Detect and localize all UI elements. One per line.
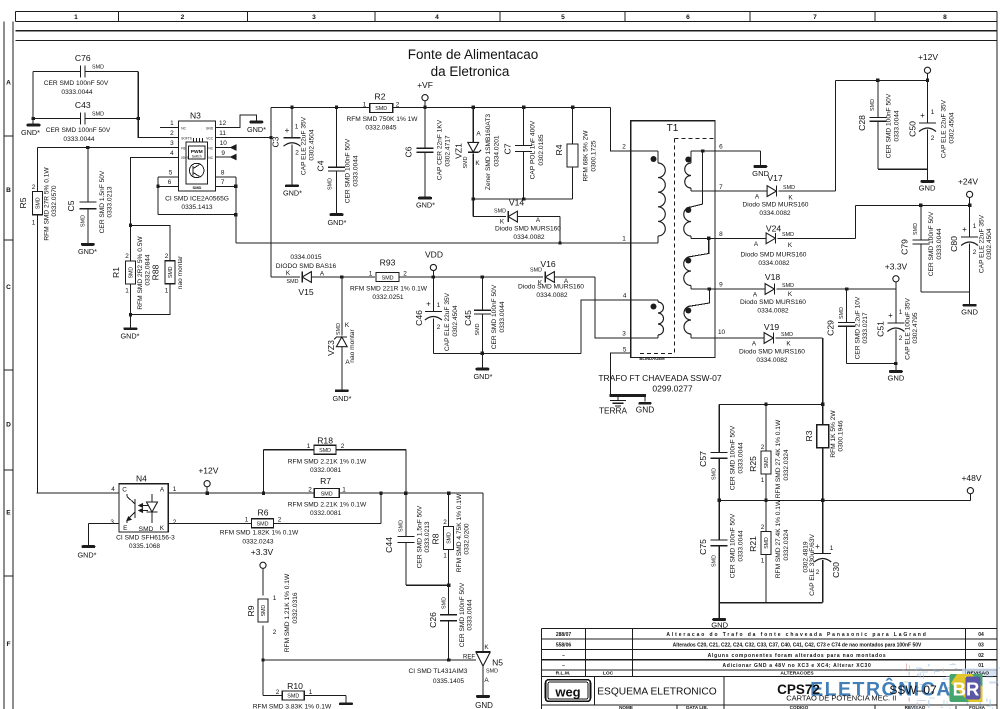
svg-text:K: K: [160, 525, 165, 532]
svg-text:VZ1: VZ1: [454, 143, 464, 159]
svg-text:CAP ELE 330uF/63V: CAP ELE 330uF/63V: [809, 533, 816, 595]
svg-text:SMD: SMD: [261, 605, 267, 617]
node +12V lower: [198, 466, 218, 494]
svg-text:0333.0044: 0333.0044: [499, 301, 506, 333]
svg-text:1: 1: [295, 124, 299, 131]
junction VZ1 bottom: [472, 197, 475, 200]
svg-text:0300.1725: 0300.1725: [591, 140, 598, 172]
svg-text:V14: V14: [509, 198, 525, 208]
svg-text:0332.0081: 0332.0081: [310, 510, 342, 517]
svg-text:VZ3: VZ3: [326, 340, 336, 356]
title block table: [541, 628, 996, 709]
svg-text:RFM SMD 4.75K 1% 0.1W: RFM SMD 4.75K 1% 0.1W: [456, 493, 463, 572]
svg-text:1: 1: [307, 443, 311, 450]
svg-text:R25: R25: [748, 456, 758, 472]
svg-text:558/06: 558/06: [556, 642, 572, 648]
wire top rail: [271, 107, 631, 151]
svg-text:0334.0082: 0334.0082: [757, 308, 789, 315]
ground GND* under C4: [330, 213, 344, 216]
resistor R4: [554, 107, 598, 199]
svg-text:R10: R10: [287, 681, 303, 691]
svg-text:0332.0324: 0332.0324: [783, 449, 790, 481]
svg-text:V15: V15: [298, 287, 314, 297]
svg-text:R21: R21: [748, 536, 758, 552]
svg-text:CER SMD 100nF 50V: CER SMD 100nF 50V: [459, 582, 466, 647]
svg-text:R6: R6: [258, 508, 269, 518]
svg-text:RFM SMD 2R2 5% 0.5W: RFM SMD 2R2 5% 0.5W: [137, 236, 144, 310]
junction C43 left: [31, 117, 34, 120]
svg-text:1: 1: [74, 14, 78, 21]
wire N3 pin1 stub: [160, 127, 179, 129]
svg-text:2: 2: [931, 135, 935, 142]
svg-text:2: 2: [273, 629, 277, 636]
zener VZ3 (nao montar): [326, 277, 356, 389]
svg-text:TERRA: TERRA: [599, 406, 628, 416]
svg-text:9: 9: [221, 150, 225, 157]
wire 48V bottom rail: [719, 603, 823, 618]
junction VDD: [432, 275, 435, 278]
node +VF: [417, 80, 433, 107]
svg-text:CER SMD 100nF 50V: CER SMD 100nF 50V: [928, 211, 935, 276]
svg-text:GND*: GND*: [327, 218, 346, 227]
svg-text:SMD: SMD: [783, 185, 795, 191]
svg-text:+: +: [920, 111, 925, 120]
svg-text:C79: C79: [900, 239, 910, 255]
svg-text:SMD: SMD: [782, 283, 794, 289]
svg-text:03: 03: [978, 642, 984, 648]
junction +12V stem: [205, 491, 208, 494]
svg-text:2: 2: [816, 569, 820, 576]
title block bottom row labels: [619, 705, 985, 709]
wire N3 pin11: [215, 137, 271, 139]
wire N3 pin9 stub: [215, 155, 236, 160]
svg-text:2: 2: [125, 253, 129, 260]
wire zener bottom rail: [473, 198, 572, 200]
svg-text:1: 1: [369, 271, 373, 278]
svg-text:R18: R18: [317, 436, 333, 446]
svg-text:04: 04: [978, 632, 984, 638]
svg-text:1: 1: [32, 220, 36, 227]
svg-text:A: A: [536, 217, 541, 224]
svg-text:2: 2: [341, 443, 345, 450]
ground GND* at N3 pin12: [249, 121, 263, 124]
svg-text:1: 1: [437, 302, 441, 309]
wire C76 row: [33, 71, 138, 124]
svg-text:SMD: SMD: [764, 457, 770, 469]
ground TERRA symbol: [599, 397, 628, 416]
svg-text:0302.4504: 0302.4504: [986, 228, 993, 260]
svg-text:CAP ELE 100uF 35V: CAP ELE 100uF 35V: [905, 297, 912, 359]
svg-text:0332.0251: 0332.0251: [372, 294, 404, 301]
wire N4 pin3 to GND: [88, 523, 119, 545]
svg-text:SMD: SMD: [764, 537, 770, 549]
svg-text:FOLHA: FOLHA: [969, 705, 986, 709]
svg-text:1: 1: [761, 477, 765, 484]
svg-text:CER SMD 1.5nF 50V: CER SMD 1.5nF 50V: [99, 170, 106, 233]
svg-text:SMD: SMD: [336, 323, 342, 335]
svg-text:N3: N3: [190, 111, 201, 121]
ground GND* under VZ3: [335, 389, 349, 392]
svg-text:CODIGO: CODIGO: [790, 705, 809, 709]
svg-text:7: 7: [221, 179, 225, 186]
svg-text:0332.0243: 0332.0243: [242, 539, 274, 546]
svg-text:1: 1: [342, 487, 346, 494]
svg-text:SMD: SMD: [92, 112, 104, 118]
svg-text:CAP CER 22nF 1KV: CAP CER 22nF 1KV: [437, 119, 444, 180]
resistor R2: [346, 92, 418, 132]
svg-text:12: 12: [219, 120, 227, 127]
capacitor C50: [908, 80, 956, 169]
svg-text:GND: GND: [919, 184, 936, 193]
svg-text:+VF: +VF: [417, 80, 433, 90]
junction R6 riser: [379, 491, 382, 494]
junction R1/R88 bottom: [129, 313, 132, 316]
junction C79: [919, 204, 922, 207]
svg-text:DATA LIB.: DATA LIB.: [686, 705, 708, 709]
resistor R88 (nao montar): [151, 253, 185, 295]
svg-text:C46: C46: [414, 310, 424, 326]
svg-text:SMD: SMD: [839, 307, 845, 319]
svg-text:C75: C75: [698, 539, 708, 555]
junction C5 top: [86, 146, 89, 149]
svg-text:2: 2: [622, 144, 626, 151]
capacitor C76: [44, 53, 109, 96]
ground GND at pin6: [753, 165, 767, 168]
svg-text:F: F: [6, 641, 10, 648]
svg-text:V24: V24: [766, 224, 782, 234]
svg-text:RFM SMD 27R 5% 0.1W: RFM SMD 27R 5% 0.1W: [44, 167, 51, 241]
svg-text:0302.4795: 0302.4795: [912, 312, 919, 344]
svg-text:SMD: SMD: [382, 275, 394, 281]
svg-text:0333.0044: 0333.0044: [936, 228, 943, 260]
svg-text:0332.0081: 0332.0081: [310, 467, 342, 474]
svg-text:3: 3: [622, 331, 626, 338]
wire +12V rail: [836, 79, 928, 81]
svg-text:1: 1: [830, 545, 834, 552]
svg-text:V17: V17: [767, 173, 783, 183]
svg-text:C29: C29: [826, 320, 836, 336]
resistor R5: [18, 167, 58, 241]
svg-text:K: K: [475, 160, 480, 167]
junction T1 tie pin8: [707, 237, 710, 240]
op-amp U1: PWM controller IC N3: [165, 111, 229, 212]
zener VZ1: [454, 107, 501, 199]
svg-text:C30: C30: [831, 562, 841, 578]
junction R25/R21: [764, 499, 767, 502]
svg-text:02: 02: [978, 653, 984, 659]
svg-text:K: K: [484, 644, 489, 651]
svg-text:SMD: SMD: [257, 522, 269, 528]
node VDD: [425, 250, 443, 278]
svg-text:1: 1: [363, 101, 367, 108]
svg-text:Fonte de Alimentacao: Fonte de Alimentacao: [408, 47, 539, 62]
node +24V: [958, 177, 978, 206]
svg-text:SMD: SMD: [494, 209, 506, 215]
capacitor C46: [414, 277, 459, 353]
svg-text:0334.0082: 0334.0082: [756, 357, 788, 364]
svg-text:7: 7: [813, 14, 817, 21]
svg-text:Diodo SMD MURS160: Diodo SMD MURS160: [495, 226, 561, 233]
svg-text:GND*: GND*: [21, 128, 40, 137]
junction C57/C75: [718, 499, 721, 502]
svg-text:+: +: [962, 225, 967, 234]
svg-text:2: 2: [276, 689, 280, 696]
svg-text:V16: V16: [540, 259, 556, 269]
svg-text:0333.0044: 0333.0044: [738, 442, 745, 474]
junction R18/C44 riser: [404, 491, 407, 494]
svg-text:0334.0201: 0334.0201: [494, 135, 501, 167]
svg-text:RFM 68K 5% 2W: RFM 68K 5% 2W: [583, 130, 590, 182]
ground GND under C51: [889, 370, 903, 373]
svg-text:Alteracao do Trafo da fonte ch: Alteracao do Trafo da fonte chaveada Pan…: [666, 632, 927, 638]
svg-text:10: 10: [718, 329, 726, 336]
svg-text:CAP ELE 22uF 35V: CAP ELE 22uF 35V: [444, 292, 451, 351]
svg-text:K: K: [788, 195, 793, 202]
junction N3 pin6: [156, 185, 159, 188]
wire R1/R88 bottom: [131, 284, 171, 328]
diode V18: [715, 272, 896, 315]
capacitor C43: [46, 100, 111, 143]
svg-text:2: 2: [761, 524, 765, 531]
svg-text:CAP ELE 22uF 35V: CAP ELE 22uF 35V: [301, 116, 308, 175]
svg-text:8: 8: [719, 231, 723, 238]
svg-text:GND: GND: [887, 374, 904, 383]
title block main row: [597, 687, 717, 698]
ground at R10: [339, 702, 353, 705]
ground GND under 48V section: [712, 618, 726, 621]
wire 48V mid rail: [719, 499, 970, 501]
svg-text:C80: C80: [949, 236, 959, 252]
wire C79/C80 gnd rail: [921, 292, 970, 304]
svg-text:0335.1068: 0335.1068: [129, 543, 161, 550]
junction C4: [335, 106, 338, 109]
svg-text:0335.1405: 0335.1405: [433, 678, 465, 685]
svg-text:RFM SMD 2.21K 1% 0.1W: RFM SMD 2.21K 1% 0.1W: [288, 502, 367, 509]
wire N3 pin2: [138, 119, 178, 138]
svg-text:CER SMD 100nF 50V: CER SMD 100nF 50V: [46, 127, 111, 134]
svg-text:SMD: SMD: [447, 532, 453, 544]
svg-text:0299.0277: 0299.0277: [652, 384, 692, 394]
svg-text:4: 4: [111, 486, 115, 493]
svg-text:CI SMD ICE2A0565G: CI SMD ICE2A0565G: [165, 196, 229, 203]
svg-text:SMD: SMD: [712, 555, 718, 567]
capacitor C30: [803, 500, 842, 602]
shunt regulator N5 TL431: [409, 644, 504, 695]
svg-text:ESQUEMA ELETRONICO: ESQUEMA ELETRONICO: [597, 687, 717, 698]
svg-text:0334.0082: 0334.0082: [513, 234, 545, 241]
svg-text:1: 1: [622, 236, 626, 243]
svg-text:1: 1: [309, 689, 313, 696]
svg-text:CER SMD 100nF 50V: CER SMD 100nF 50V: [491, 284, 498, 349]
svg-text:1: 1: [165, 288, 169, 295]
svg-text:R.L.M.: R.L.M.: [556, 671, 571, 677]
ground GND* under C6: [418, 197, 432, 200]
svg-text:10: 10: [220, 140, 228, 147]
svg-text:0300.1946: 0300.1946: [838, 420, 845, 452]
svg-text:C6: C6: [404, 146, 414, 157]
svg-text:SMD: SMD: [319, 448, 331, 454]
capacitor C7: [503, 107, 546, 199]
svg-text:0333.0044: 0333.0044: [353, 155, 360, 187]
junction R25 top: [764, 403, 767, 406]
svg-text:TRAFO FT CHAVEADA SSW-07: TRAFO FT CHAVEADA SSW-07: [598, 373, 722, 383]
svg-text:CAP POL 1nF 400V: CAP POL 1nF 400V: [530, 120, 537, 179]
title block product codes: [777, 682, 937, 703]
resistor R1: [111, 236, 152, 310]
svg-text:2: 2: [170, 130, 174, 137]
svg-text:6: 6: [719, 144, 723, 151]
svg-text:+: +: [285, 126, 290, 135]
svg-text:NC: NC: [208, 147, 213, 151]
svg-text:E: E: [123, 525, 127, 532]
resistor R3: [804, 404, 845, 500]
title text: [408, 47, 539, 79]
svg-text:CER SMD 100nF 50V: CER SMD 100nF 50V: [44, 80, 109, 87]
ground GND* under C3: [285, 184, 299, 187]
svg-text:nao montar: nao montar: [177, 255, 184, 289]
svg-text:0302.4504: 0302.4504: [452, 305, 459, 337]
wire V19 down to 48V section: [822, 338, 824, 404]
svg-text:5: 5: [561, 14, 565, 21]
capacitor C4: [316, 107, 360, 213]
svg-text:R8: R8: [431, 533, 441, 544]
svg-text:K: K: [788, 242, 793, 249]
svg-text:Diodo SMD MURS160: Diodo SMD MURS160: [743, 202, 809, 209]
svg-text:RFM SMD 750K 1% 1W: RFM SMD 750K 1% 1W: [346, 116, 418, 123]
svg-text:–: –: [562, 663, 565, 669]
junction +VF: [423, 106, 426, 109]
resistor R21: [748, 499, 790, 603]
junction C43 right: [137, 117, 140, 120]
svg-text:LOC: LOC: [603, 671, 614, 677]
svg-text:9: 9: [719, 282, 723, 289]
svg-text:CI SMD SFH6156-3: CI SMD SFH6156-3: [116, 535, 175, 542]
border frame: double top lines: [16, 30, 997, 32]
svg-text:SMD: SMD: [129, 267, 135, 279]
svg-text:0332.0316: 0332.0316: [292, 592, 299, 624]
svg-text:weg: weg: [554, 685, 580, 700]
diode V14: [473, 198, 561, 244]
svg-text:R4: R4: [554, 144, 564, 155]
svg-text:CI SMD TL431AIM3: CI SMD TL431AIM3: [409, 668, 468, 675]
svg-text:GND: GND: [961, 308, 978, 317]
svg-text:0333.0044: 0333.0044: [894, 110, 901, 142]
svg-text:SMD: SMD: [486, 669, 498, 675]
svg-text:+: +: [426, 300, 431, 309]
junction R3 top: [821, 403, 824, 406]
svg-text:288/07: 288/07: [556, 632, 572, 638]
svg-text:4: 4: [170, 150, 174, 157]
svg-text:2: 2: [181, 14, 185, 21]
svg-text:A: A: [484, 677, 489, 684]
wire T1 pin4: [581, 300, 631, 353]
node +3.3V: [885, 262, 908, 290]
svg-text:ALTERACOES: ALTERACOES: [780, 671, 814, 677]
wire +24V rail: [856, 204, 970, 206]
svg-text:2: 2: [308, 487, 312, 494]
border frame: right edge: [996, 11, 998, 709]
svg-text:+3.3V: +3.3V: [251, 547, 274, 557]
svg-text:SMD: SMD: [781, 332, 793, 338]
svg-text:4: 4: [435, 14, 439, 21]
wire N3 pin12 to GND: [215, 115, 256, 128]
svg-text:RFM SMD 27.4K 1% 0.1W: RFM SMD 27.4K 1% 0.1W: [775, 499, 782, 578]
svg-text:Zener SMD 1SMB160AT3: Zener SMD 1SMB160AT3: [485, 114, 492, 190]
svg-text:SMD: SMD: [287, 694, 299, 700]
svg-text:0302.4717: 0302.4717: [445, 135, 452, 167]
svg-text:8: 8: [943, 14, 947, 21]
wire R1/R88 top: [131, 225, 171, 261]
svg-text:1: 1: [245, 517, 249, 524]
transformer T1: [598, 121, 725, 394]
svg-text:SMD: SMD: [287, 279, 299, 285]
wire C43 row: [33, 118, 138, 120]
svg-text:2: 2: [437, 324, 441, 331]
svg-text:GND*: GND*: [416, 201, 435, 210]
svg-text:0332.0200: 0332.0200: [464, 523, 471, 555]
svg-text:7: 7: [719, 184, 723, 191]
junction C7 bottom: [522, 197, 525, 200]
wire 48V top rail: [719, 403, 823, 405]
wire N5 cathode riser: [482, 493, 484, 651]
svg-text:NC: NC: [208, 156, 213, 160]
svg-text:VCC: VCC: [206, 137, 213, 141]
svg-text:A: A: [6, 80, 11, 87]
watermark circuit pattern: [903, 663, 1000, 709]
wire T1 pin6 to GND: [715, 151, 760, 165]
junction C45 top: [481, 275, 484, 278]
wire N3 pin3 row: [37, 147, 178, 149]
resistor R93: [342, 258, 434, 302]
border frame: top column strip: [16, 11, 997, 21]
svg-text:Adicionar GND a 48V no XC3 e X: Adicionar GND a 48V no XC3 e XC4; Altera…: [723, 663, 872, 669]
svg-text:R2: R2: [375, 92, 386, 102]
junction R3/C30: [821, 499, 824, 502]
wire C28/C50 gnd rail: [878, 169, 928, 180]
wire main vertical x271: [270, 107, 272, 277]
svg-text:T1: T1: [667, 123, 679, 134]
junction R8 bottom: [447, 584, 450, 587]
svg-text:GND*: GND*: [78, 247, 97, 256]
svg-text:8: 8: [221, 170, 225, 177]
watermark haze behind revision cell: [962, 669, 997, 676]
svg-text:Diodo SMD MURS160: Diodo SMD MURS160: [741, 252, 807, 259]
svg-text:da Eletronica: da Eletronica: [431, 64, 510, 79]
svg-text:V18: V18: [765, 272, 781, 282]
capacitor C29: [826, 289, 870, 364]
capacitor C51: [876, 289, 920, 364]
svg-text:C26: C26: [428, 612, 438, 628]
ground GND* under C76/C43: [27, 124, 41, 127]
junction R1/R88 top node: [129, 224, 132, 227]
junction C45 bottom: [481, 352, 484, 355]
svg-text:GND*: GND*: [473, 372, 492, 381]
svg-text:GND*: GND*: [120, 332, 139, 341]
svg-text:R5: R5: [18, 197, 28, 208]
svg-text:11: 11: [219, 130, 226, 137]
svg-text:K: K: [345, 322, 350, 329]
svg-text:C51: C51: [876, 321, 886, 337]
ground GND at T1: [639, 402, 652, 405]
diode V19: [715, 322, 823, 364]
junction pins5-8 node: [234, 213, 237, 216]
svg-text:GND: GND: [475, 701, 493, 709]
svg-text:SMD: SMD: [92, 65, 104, 71]
svg-text:+48V: +48V: [961, 473, 981, 483]
capacitor C75: [698, 500, 745, 602]
svg-text:0332.0324: 0332.0324: [783, 529, 790, 561]
wire R5 riser: [36, 148, 38, 494]
